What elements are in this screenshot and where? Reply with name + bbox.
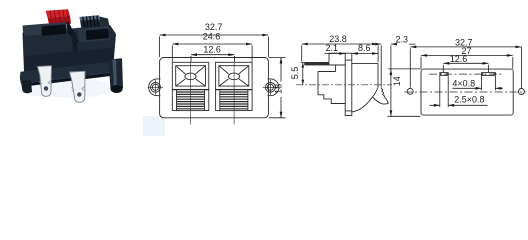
red button front face: [48, 16, 72, 26]
left window diagonals: [176, 66, 206, 86]
body right edge: [377, 63, 379, 87]
left pin notch: [39, 81, 51, 86]
left block top face: [23, 22, 68, 36]
ext lines 24.6: [172, 46, 252, 62]
arrows 18: [280, 58, 283, 118]
dim 32.7 line: [160, 34, 269, 36]
svg-text:24.6: 24.6: [203, 32, 221, 42]
dim 2.1 leader: [324, 53, 345, 55]
black button top highlight: [80, 15, 100, 21]
left ear: [149, 79, 161, 96]
ext 14 top tick: [388, 68, 420, 70]
ext lines 12.6: [191, 56, 234, 62]
dim 2.3 lines: [375, 43, 416, 45]
svg-text:12.6: 12.6: [203, 45, 221, 55]
arrows 4x0.8: [476, 87, 502, 90]
photo soft shadow: [17, 78, 115, 98]
right pin: [70, 71, 86, 102]
back horizontal centerline: [405, 91, 527, 93]
left window inner: [176, 66, 206, 86]
ext lines 32.7: [160, 37, 269, 58]
BACK VIEW: [405, 69, 527, 115]
flange bottom cap line: [345, 110, 352, 112]
ext lines 18: [269, 58, 286, 118]
svg-text:8.6: 8.6: [358, 43, 371, 53]
dim 24.6 line: [172, 43, 252, 45]
svg-text:18: 18: [274, 84, 284, 94]
svg-text:2.1: 2.1: [326, 43, 339, 53]
front centerline right: [233, 62, 235, 124]
ext 4x0.8: [482, 76, 496, 90]
right ear: [268, 79, 279, 96]
ext 12.6 back: [443, 65, 488, 73]
arrow 2.1: [339, 52, 345, 55]
right button block: [216, 90, 253, 111]
back slot left: [440, 73, 448, 76]
svg-text:14: 14: [392, 76, 402, 86]
arrows 32.7 back: [410, 46, 521, 49]
left ear centermark: [148, 80, 163, 95]
arrows 14: [390, 69, 393, 116]
side centerline: [296, 84, 392, 86]
dim 5.5 line: [301, 63, 306, 85]
svg-text:12.6: 12.6: [450, 54, 468, 64]
body top edge right of flange: [352, 62, 378, 64]
body bottom curve: [352, 97, 373, 112]
dim 12.6 line: [191, 54, 234, 56]
right post cap: [111, 85, 123, 93]
right post highlight: [113, 59, 118, 91]
back right hole: [518, 89, 524, 95]
right pin hole: [77, 92, 81, 96]
arrows 8.6: [352, 52, 378, 55]
slot row centerline: [429, 73, 503, 75]
arrows 2.5x0.8: [434, 104, 454, 107]
main body slab: [23, 25, 117, 72]
left rear post: [21, 80, 32, 93]
dim 4x0.8 lines: [453, 87, 503, 89]
right window inner: [219, 66, 249, 86]
bottom flange: [20, 62, 114, 84]
arrows 12.6 back: [443, 62, 488, 65]
flange bottom dark edge: [20, 72, 114, 87]
right ear hole outer: [266, 82, 276, 92]
body outline: [160, 58, 269, 118]
arrows 5.5: [302, 63, 305, 85]
right ear hole inner: [267, 84, 273, 90]
left window outer: [172, 62, 209, 89]
dim 18 line: [280, 58, 282, 118]
svg-text:2.5×0.8: 2.5×0.8: [454, 95, 484, 105]
right block top face: [78, 26, 111, 43]
back body outline: [421, 69, 513, 115]
front centerline left: [190, 62, 192, 124]
right block wire hole: [86, 29, 109, 40]
left block wire hole: [42, 25, 67, 36]
dim 8.6 line: [352, 53, 378, 55]
dim 2.5x0.8 lines: [430, 104, 488, 106]
photo shadow patch right: [143, 116, 165, 136]
arrows 24.6: [172, 43, 252, 46]
dim 32.7 back line: [410, 46, 521, 48]
right window ellipse: [228, 73, 239, 80]
back left hole: [407, 88, 413, 94]
right window diagonals: [219, 66, 249, 86]
ext 2.3 left: [380, 46, 382, 88]
PRODUCT PHOTO: [17, 9, 165, 136]
snap claw: [372, 88, 388, 105]
back slot right: [482, 73, 496, 76]
red button top: [46, 9, 71, 17]
left button block: [172, 90, 209, 111]
groove between blocks: [67, 22, 80, 43]
right pin notch: [71, 87, 84, 92]
right post cylinder: [109, 58, 124, 91]
pin (solder tab): [305, 62, 330, 65]
SIDE DIMENSIONS: [301, 44, 378, 85]
svg-text:32.7: 32.7: [205, 22, 223, 32]
dim 14 line (shared ext of 2.3): [390, 46, 392, 117]
dim 23.8 line: [302, 43, 378, 45]
BACK DIMENSIONS: [375, 44, 522, 116]
back slot left end ticks: [441, 73, 447, 76]
button stem block: [329, 53, 345, 71]
groove vertical: [72, 33, 79, 63]
arrows 27: [421, 54, 513, 57]
ext 27: [421, 57, 513, 69]
black button ribs: [83, 16, 99, 30]
arrows 32.7: [160, 34, 269, 37]
ext 14 bottom tick: [388, 115, 421, 117]
body lower shading: [24, 48, 114, 72]
right button side rails: [220, 90, 248, 111]
arrows 23.8: [302, 43, 378, 46]
FRONT DIMENSIONS: [160, 35, 286, 118]
left pin: [38, 66, 52, 97]
flange plate: [345, 53, 352, 115]
left block front top edge: [23, 26, 25, 44]
SIDE VIEW: [296, 53, 392, 115]
ext 2.5x0.8: [440, 76, 448, 107]
red button ribs: [50, 9, 69, 23]
svg-text:4×0.8: 4×0.8: [452, 79, 475, 89]
back slot right end ticks: [483, 73, 495, 76]
black button base: [80, 15, 102, 31]
arrows 12.6: [191, 53, 234, 56]
arrows 2.3: [375, 43, 397, 46]
housing steps: [318, 95, 345, 104]
left ear hole inner: [152, 84, 158, 90]
ext lines 23.8: [302, 46, 378, 63]
button housing block: [318, 72, 336, 95]
right window outer: [216, 62, 253, 89]
ext 32.7 back: [410, 47, 521, 88]
left pin hole: [44, 86, 48, 90]
dim 12.6 back line: [443, 62, 488, 64]
block corner behind black button: [100, 17, 111, 32]
flange top cap line: [345, 59, 352, 61]
svg-text:5.5: 5.5: [290, 67, 300, 80]
left button side rails: [177, 90, 205, 111]
right ear centermark: [263, 80, 278, 95]
left ear hole outer: [151, 82, 161, 92]
right button ribs: [220, 92, 248, 109]
left button ribs: [177, 92, 205, 109]
left window ellipse: [185, 73, 196, 80]
svg-text:2.3: 2.3: [395, 35, 408, 45]
dim 27 line: [421, 54, 513, 56]
